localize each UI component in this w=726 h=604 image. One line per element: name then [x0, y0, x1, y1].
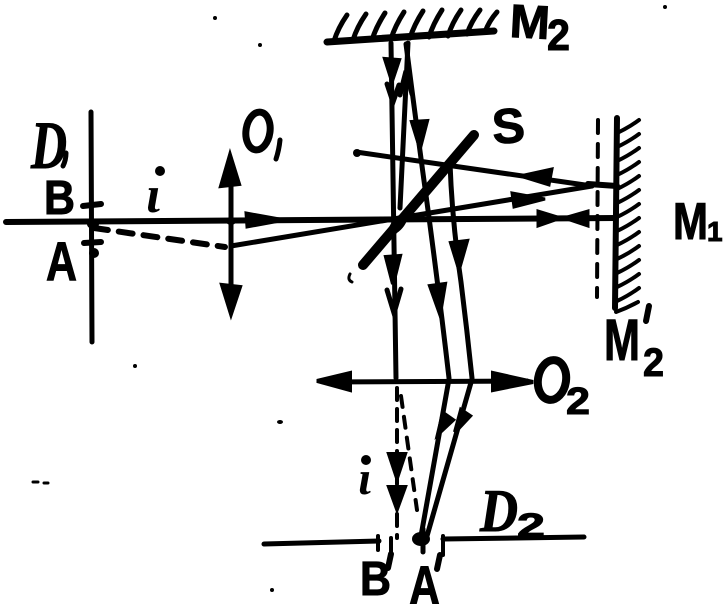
- node A tick: [84, 242, 101, 243]
- svg-text:A: A: [46, 230, 77, 292]
- wire: ray reflected down from splitter (S2): [450, 163, 472, 378]
- mirror M2 hatching: [334, 10, 497, 41]
- svg-text:A: A: [409, 554, 440, 604]
- wire: slanted ray from M2 down to lens O2: [406, 44, 449, 378]
- wire: ray R2 from lens O1 to mirror M1: [231, 186, 592, 246]
- wire: converging ray L1 below lens O2: [421, 379, 449, 536]
- ink blob on D1 line: [89, 248, 99, 258]
- arrow left on axis near M1: [564, 211, 588, 226]
- arrow down on slanted ray (upper): [412, 121, 427, 148]
- arrow down on L1: [438, 413, 453, 434]
- stray speck: [213, 16, 217, 20]
- arrow down on S2: [451, 241, 467, 269]
- arrow down on dashed vertical (upper): [389, 454, 405, 478]
- svg-text:2: 2: [517, 507, 545, 545]
- arrow right on axis (left of splitter): [246, 213, 285, 227]
- lens O2 (double arrow): [323, 381, 527, 382]
- node B tick: [83, 204, 101, 206]
- wire: main optical axis: [6, 218, 616, 222]
- image plane D2 left segment: [264, 541, 379, 544]
- wire: converging ray L2 below lens O2: [427, 379, 472, 536]
- junction blob at D1 axis crossing: [87, 219, 99, 229]
- object plane D1 (vertical line): [91, 112, 92, 342]
- arrow left on R1: [520, 169, 552, 185]
- node B' tick: [389, 538, 393, 553]
- mirror M2 line (top): [327, 31, 494, 42]
- arrow left of lens O2: [317, 373, 350, 390]
- arrow up on right vertical: [400, 71, 412, 95]
- image plane D2 right segment: [443, 537, 584, 539]
- wire: ray M2-down (left vertical): [391, 43, 396, 378]
- wire: ray R1 from splitter to mirror M1 (upper, returning): [356, 152, 592, 186]
- wire: dashed vertical ray below lens O2: [395, 388, 399, 538]
- arrow right on axis near M1: [538, 211, 561, 226]
- svg-text:2: 2: [643, 341, 664, 385]
- arrow down on left vertical below axis (lower, chevron): [387, 289, 401, 313]
- svg-text:2: 2: [566, 381, 590, 423]
- arrow down on L2: [455, 410, 470, 432]
- mirror M1 hatching: [616, 120, 639, 312]
- svg-text:M: M: [673, 193, 708, 251]
- wire: ray up to M2 (right vertical): [400, 43, 408, 208]
- tick right: [441, 536, 445, 555]
- junction blob at lens O1 axis crossing: [226, 217, 236, 225]
- svg-text:D: D: [479, 478, 518, 544]
- label O1: [243, 111, 272, 152]
- svg-text:S: S: [490, 99, 526, 155]
- label O2: [535, 358, 569, 402]
- svg-text:B: B: [44, 172, 75, 225]
- lens O1 (double arrow): [229, 162, 234, 308]
- svg-text:1: 1: [707, 216, 723, 247]
- arrow right on R2: [512, 193, 545, 207]
- wire: convergence segment at M1: [588, 184, 617, 186]
- arrow right of lens O2: [493, 373, 533, 390]
- tick left end: [376, 536, 380, 550]
- junction blob at splitter crossing: [385, 210, 411, 238]
- mirror M1 line: [615, 118, 617, 308]
- svg-text:M: M: [604, 308, 640, 373]
- arrow down on left vertical (top): [385, 59, 399, 81]
- arrow down on left vertical (second): [387, 84, 399, 102]
- arrow down on slanted ray (lower): [430, 284, 445, 314]
- wire: dashed slanted ray to A': [401, 396, 417, 510]
- svg-text:M: M: [509, 0, 552, 49]
- svg-text:B: B: [360, 553, 391, 604]
- arrow down on left vertical below axis (upper): [386, 256, 400, 284]
- wire: dashed ray from B to lens O1: [94, 228, 225, 247]
- node A' focus blob: [412, 532, 430, 546]
- beam splitter S plate: [363, 135, 474, 265]
- arrow down on dashed vertical (lower): [389, 487, 405, 509]
- arrow up of lens O1: [221, 155, 239, 186]
- node M2' image plane (dashed): [597, 120, 598, 297]
- arrow down of lens O1: [222, 285, 240, 314]
- svg-text:2: 2: [547, 11, 570, 60]
